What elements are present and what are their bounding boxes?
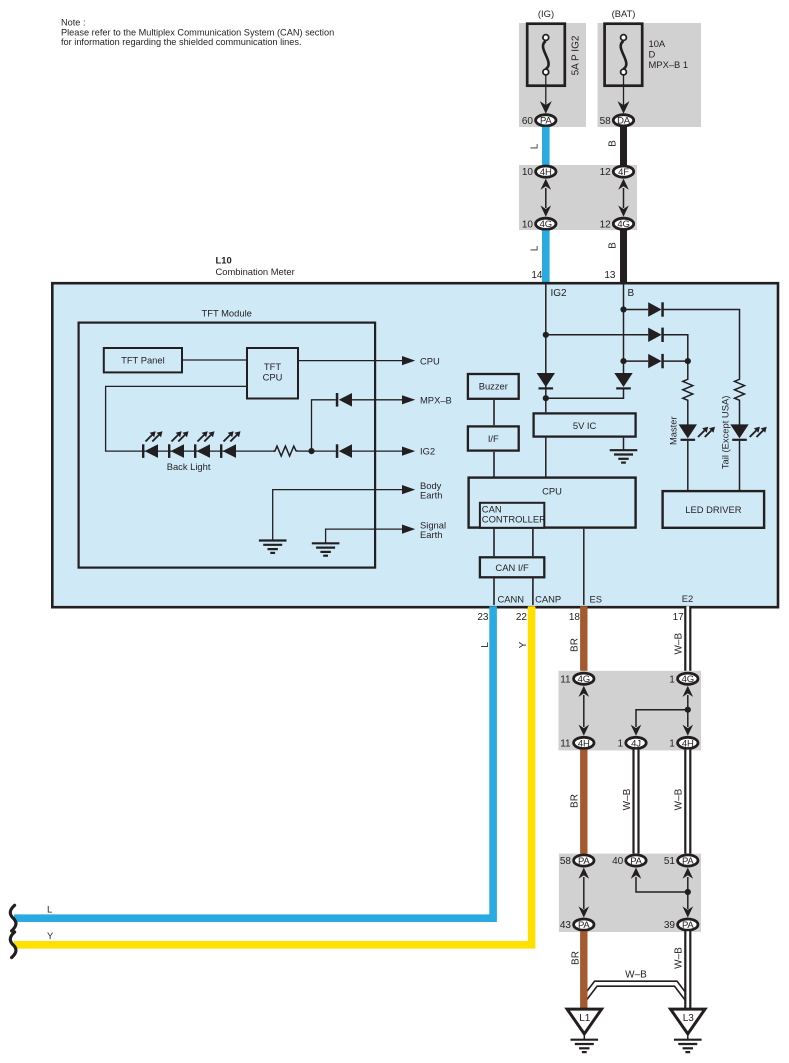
svg-text:39: 39 (664, 920, 676, 931)
svg-text:IG2: IG2 (551, 288, 568, 299)
wire signal earth (326, 529, 403, 543)
svg-text:Back Light: Back Light (167, 461, 211, 472)
connector 12 4G (600, 218, 634, 230)
diode D5 (row 1, pointing right) (648, 302, 664, 316)
svg-text:51: 51 (664, 856, 676, 867)
connector 60 PA (522, 115, 556, 127)
svg-text:W–B: W–B (674, 788, 685, 810)
wire junction to IG2 diode (312, 450, 336, 452)
junction dot 40 PA branch (685, 889, 691, 895)
LED tail (730, 424, 766, 441)
connector 10 4H (522, 166, 556, 178)
wire 5V IC to CPU (545, 438, 547, 477)
wire resistor to junction (298, 450, 312, 452)
svg-text:L: L (530, 245, 541, 251)
svg-text:PA: PA (578, 856, 590, 867)
I/F box (468, 426, 519, 450)
svg-text:4J: 4J (631, 738, 641, 749)
connector 10 4G (522, 218, 556, 230)
wire diode row 2 (IG2 to master node) (546, 335, 688, 361)
ground triangle L1 (567, 1009, 602, 1034)
svg-text:BR: BR (570, 951, 581, 965)
wire BR 43 PA to ground L1 (580, 931, 587, 1010)
svg-text:ES: ES (590, 593, 603, 604)
svg-text:Please refer to the Multiplex: Please refer to the Multiplex Communicat… (61, 27, 334, 37)
arrow MPX-B (402, 395, 415, 404)
svg-text:1: 1 (669, 739, 675, 750)
svg-text:40: 40 (612, 856, 624, 867)
resistor master (683, 378, 693, 403)
resistor tail (735, 378, 745, 403)
connector 1 4G (669, 673, 698, 685)
svg-text:BR: BR (570, 638, 581, 652)
wire B (4G to meter pin 13) (620, 230, 627, 284)
connector 58 PA (560, 855, 594, 867)
connector 51 PA (664, 855, 698, 867)
wire W-B 4H to 51 PA (684, 750, 691, 855)
svg-text:1: 1 (669, 674, 675, 685)
wire L (PA to 4H) (542, 127, 550, 166)
wire W-B 4J to 40 PA (632, 750, 639, 855)
wire diode D1 to MPX-B arrow (352, 399, 403, 401)
svg-text:23: 23 (477, 612, 489, 623)
svg-text:22: 22 (516, 612, 528, 623)
diode D4 (B down) (614, 373, 632, 390)
wire CAN I/F to CANN pin (493, 578, 495, 605)
CAN I/F box (480, 557, 544, 577)
svg-text:(BAT): (BAT) (612, 8, 636, 19)
svg-text:1: 1 (617, 739, 623, 750)
svg-text:Earth: Earth (420, 529, 442, 540)
junction dot backlight node (308, 448, 314, 454)
wire 51 PA to 39 PA arrows (683, 868, 694, 918)
svg-text:TFT Panel: TFT Panel (121, 354, 165, 365)
svg-text:IG2: IG2 (420, 446, 435, 457)
svg-text:4G: 4G (617, 219, 629, 230)
wire ES BR (meter to 4G) (580, 606, 587, 672)
svg-text:5V IC: 5V IC (573, 420, 597, 431)
svg-text:4F: 4F (618, 167, 629, 178)
ground symbol L3 (674, 1040, 702, 1052)
connector 11 4G (560, 673, 594, 685)
svg-text:43: 43 (560, 920, 572, 931)
wire I/F to CPU (493, 452, 495, 477)
svg-text:E2: E2 (682, 593, 693, 604)
svg-text:60: 60 (522, 116, 534, 127)
wire resistor to master LED (687, 402, 689, 425)
fuse panel (BAT) (598, 23, 702, 127)
connector 11 4H (560, 737, 594, 749)
arrow into connector 58 DA (618, 101, 630, 114)
TFT Module box (79, 323, 376, 568)
junction dot IG2/B merge (543, 395, 549, 401)
svg-text:CONTROLLER: CONTROLLER (482, 513, 546, 524)
combination meter L10 box (52, 283, 778, 607)
svg-text:W–B: W–B (625, 970, 647, 981)
wire diode row 3 (B to master node) (624, 360, 688, 362)
svg-text:5A P IG2: 5A P IG2 (571, 35, 582, 75)
svg-text:Y: Y (47, 930, 54, 941)
wire 4H to 4G junction arrows (541, 179, 552, 217)
wire E2 W-B (meter to 4G) (684, 606, 691, 672)
LED master (679, 424, 715, 441)
wire D4 cathode to IG2 node (546, 390, 624, 399)
svg-text:Earth: Earth (420, 490, 442, 501)
svg-text:13: 13 (604, 270, 616, 281)
connector 40 PA (612, 855, 646, 867)
svg-text:PA: PA (578, 920, 590, 931)
wire L (4G to meter pin 14) (542, 230, 550, 284)
svg-text:(IG): (IG) (538, 8, 554, 19)
svg-text:CPU: CPU (263, 372, 283, 383)
wires CAN CONTROLLER to CAN I/F (493, 529, 495, 556)
wire TFT Panel to TFT CPU (183, 359, 246, 361)
wire 40 PA branch (631, 868, 688, 893)
svg-text:4H: 4H (682, 738, 694, 749)
junction dot IG2 / diode row 2 (543, 332, 549, 338)
svg-text:14: 14 (531, 270, 543, 281)
diode D7 (row 3, pointing right) (648, 354, 664, 368)
svg-text:4G: 4G (540, 219, 552, 230)
wire L3 triangle to ground (687, 1034, 689, 1040)
wire 4G to 4H right pair arrows (683, 686, 694, 736)
junction dot B / diode row 1 (620, 306, 626, 312)
svg-text:BR: BR (570, 794, 581, 808)
wire TFT CPU to CPU arrow (298, 360, 403, 362)
wire diode row 1 (B to Tail) (624, 310, 740, 378)
fuse panel (IG) (519, 23, 586, 127)
svg-text:MPX–B: MPX–B (420, 394, 452, 405)
svg-text:D: D (649, 49, 656, 60)
arrow into 4J (631, 725, 642, 736)
TFT CPU box (247, 348, 298, 399)
svg-text:L1: L1 (579, 1013, 591, 1024)
arrow Body Earth (402, 485, 415, 494)
Buzzer box (468, 374, 519, 399)
backlight LED 2 (168, 431, 189, 458)
svg-text:Y: Y (518, 641, 529, 648)
svg-text:CANP: CANP (535, 593, 561, 604)
wire B (DA to 4F) (620, 127, 627, 166)
svg-text:PA: PA (630, 856, 642, 867)
wire resistor to tail LED (739, 402, 741, 425)
svg-text:Tail (Except USA): Tail (Except USA) (719, 396, 730, 469)
wire master node to resistor (687, 361, 689, 377)
svg-text:10: 10 (522, 219, 534, 230)
wire branch to 4J (636, 710, 688, 727)
connector 39 PA (664, 919, 698, 931)
backlight LED 3 (194, 431, 215, 458)
connector 43 PA (560, 919, 594, 931)
connector 1 4J (617, 737, 646, 749)
ground body earth (259, 541, 287, 553)
svg-text:4G: 4G (682, 674, 694, 685)
wire 58 PA to 43 PA arrows (579, 868, 590, 918)
connector 12 4F (600, 166, 634, 178)
diode D1 (MPX-B row, pointing left) (336, 393, 352, 407)
svg-text:LED DRIVER: LED DRIVER (685, 504, 741, 515)
diode D3 (IG2 down) (537, 373, 555, 390)
svg-text:L: L (530, 143, 541, 149)
squiggle end of L wire (10, 905, 16, 931)
connector panel 4G to 4H/4J (559, 671, 702, 751)
svg-text:10: 10 (522, 167, 534, 178)
svg-text:B: B (607, 242, 618, 249)
diode D2 (IG2 row, pointing left) (336, 444, 352, 458)
svg-text:58: 58 (600, 116, 612, 127)
arrow Signal Earth (402, 525, 415, 534)
svg-text:PA: PA (682, 920, 694, 931)
shield wire W-B horizontal (584, 984, 688, 1000)
junction dot branch to 4J (685, 707, 691, 713)
note text (61, 18, 334, 47)
backlight LED 4 (220, 431, 241, 458)
wire tail LED to LED driver (739, 441, 741, 491)
squiggle end of Y wire (10, 932, 16, 958)
svg-text:L3: L3 (683, 1013, 695, 1024)
svg-text:11: 11 (560, 739, 571, 750)
connector 58 DA (600, 115, 634, 127)
wire BR 4H to 58 PA (580, 750, 587, 855)
backlight LED 1 (142, 431, 163, 458)
svg-text:Master: Master (668, 416, 679, 445)
wire body earth (273, 490, 403, 541)
svg-text:for information regarding the: for information regarding the shielded c… (61, 37, 302, 47)
svg-text:PA: PA (540, 116, 552, 127)
wire fuse F1 to connector 60 PA (545, 75, 547, 107)
svg-text:58: 58 (560, 856, 572, 867)
CAN CONTROLLER box (480, 503, 546, 528)
svg-text:Buzzer: Buzzer (479, 381, 508, 392)
wire TFT CPU to backlight LEDs (106, 386, 273, 451)
connector panel PA (559, 854, 701, 932)
svg-text:B: B (628, 288, 635, 299)
svg-text:4H: 4H (578, 738, 590, 749)
ground symbol L1 (571, 1040, 599, 1052)
svg-text:Combination Meter: Combination Meter (216, 266, 295, 277)
svg-text:PA: PA (682, 856, 694, 867)
svg-text:CAN I/F: CAN I/F (495, 562, 529, 573)
svg-text:TFT Module: TFT Module (202, 308, 252, 319)
svg-text:CPU: CPU (542, 485, 562, 496)
5V IC box (534, 413, 636, 436)
resistor backlight (273, 446, 298, 456)
diode D6 (row 2, pointing right) (648, 328, 664, 342)
svg-text:10A: 10A (649, 38, 666, 49)
wire W-B 39 PA to ground L3 (684, 931, 691, 1010)
svg-text:MPX–B 1: MPX–B 1 (649, 59, 689, 70)
svg-text:L: L (480, 642, 491, 648)
arrow into connector 60 PA (540, 101, 552, 114)
svg-text:4G: 4G (578, 674, 590, 685)
CPU box (469, 478, 636, 528)
wire diode D2 to IG2 arrow (352, 450, 403, 452)
wire CANN L (blue) to left edge (14, 606, 493, 918)
wire 4G to 4H left pair arrows (579, 686, 590, 736)
svg-text:12: 12 (600, 219, 612, 230)
svg-text:L: L (47, 904, 52, 915)
svg-text:W–B: W–B (674, 947, 685, 969)
fuse F1 5A P IG2 (527, 24, 581, 86)
connector panel 4H/4F to 4G (519, 165, 637, 230)
svg-text:4H: 4H (540, 167, 552, 178)
wire L1 triangle to ground (583, 1034, 585, 1040)
wire CAN I/F to CANP pin (532, 578, 534, 605)
svg-text:12: 12 (600, 167, 612, 178)
connector 1 4H (669, 737, 698, 749)
ground 5V IC (610, 450, 638, 462)
junction dot master node (685, 358, 691, 364)
ground triangle L3 (671, 1009, 706, 1034)
wire master LED to LED driver (687, 441, 689, 491)
fuse F2 10A D MPX-B 1 (605, 24, 689, 86)
svg-text:CANN: CANN (498, 593, 525, 604)
svg-text:11: 11 (560, 674, 571, 685)
wire B vertical (pin 13 to diode D4) (623, 285, 625, 375)
svg-text:L10: L10 (216, 255, 232, 266)
svg-text:18: 18 (569, 612, 581, 623)
arrow IG2 (402, 447, 415, 456)
svg-text:CPU: CPU (420, 355, 440, 366)
wire junction to MPX-B diode row (312, 400, 336, 451)
wire IG2 vertical (pin 14 to 5V IC) (545, 285, 547, 413)
TFT Panel box (104, 348, 182, 372)
svg-text:W–B: W–B (674, 633, 685, 655)
wire Buzzer to I/F (493, 400, 495, 425)
wire 5V IC to ground (623, 438, 625, 451)
svg-text:DA: DA (617, 116, 631, 127)
wire CPU to ES pin (583, 529, 585, 605)
svg-text:Note :: Note : (61, 18, 86, 28)
svg-text:I/F: I/F (488, 433, 499, 444)
arrow CPU (402, 356, 415, 365)
LED DRIVER box (663, 491, 765, 528)
svg-text:TFT: TFT (264, 361, 281, 372)
svg-text:W–B: W–B (622, 788, 633, 810)
wire 4F to 4G junction arrows (618, 179, 629, 217)
svg-text:17: 17 (673, 612, 685, 623)
wire CANP Y (yellow) to left edge (14, 606, 532, 945)
svg-text:B: B (607, 140, 618, 147)
junction dot B / diode row 3 (620, 358, 626, 364)
ground signal earth (312, 543, 340, 555)
wire fuse F2 to connector 58 DA (623, 75, 625, 107)
